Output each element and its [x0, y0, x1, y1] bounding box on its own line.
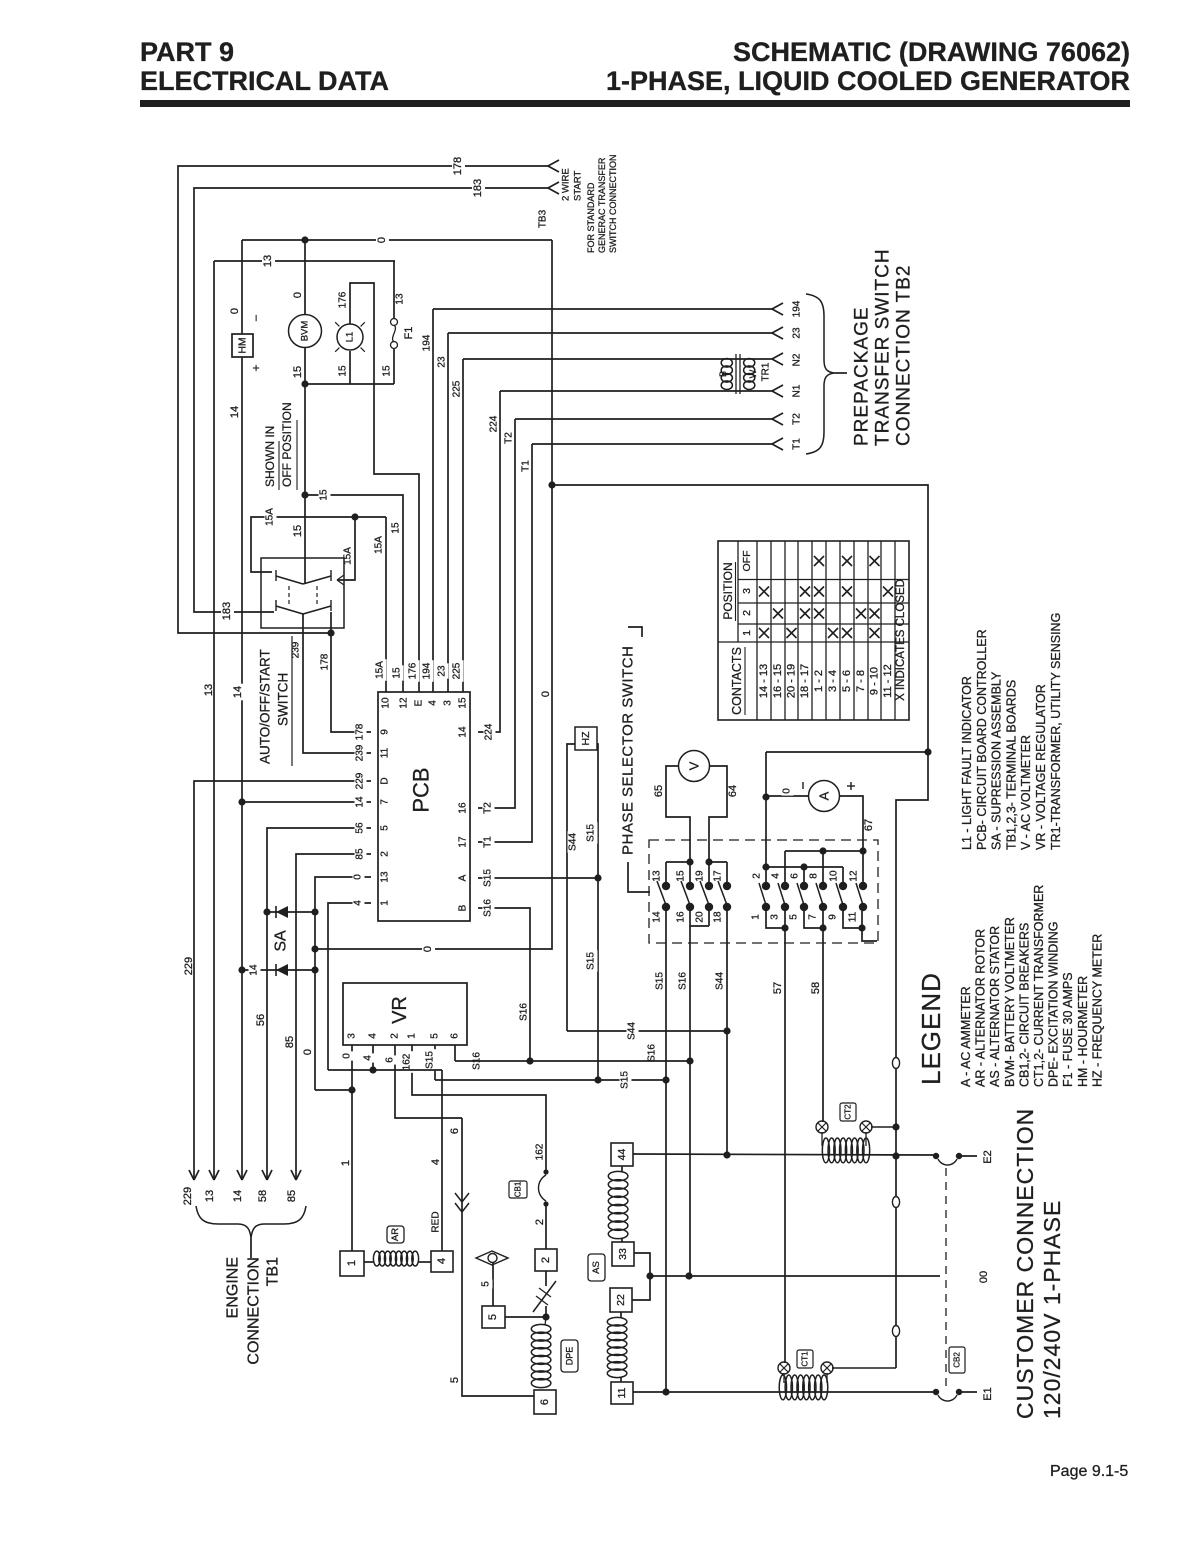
- svg-text:T2: T2: [483, 802, 494, 814]
- wire S44 horizontal: [567, 1020, 727, 1042]
- table X marks: [759, 556, 893, 638]
- wire join 33-22: [632, 1253, 654, 1300]
- svg-text:PCB- CIRCUIT BOARD CONTROLLER: PCB- CIRCUIT BOARD CONTROLLER: [975, 629, 989, 850]
- svg-text:S15: S15: [425, 1051, 436, 1069]
- svg-text:7: 7: [808, 914, 819, 920]
- svg-text:T1: T1: [483, 836, 494, 848]
- svg-text:0: 0: [353, 874, 364, 880]
- svg-text:85: 85: [284, 1036, 296, 1048]
- svg-text:15: 15: [391, 522, 402, 534]
- wire 15 BVM to switch pole: [292, 347, 309, 584]
- wire 162 VR pin 1 to CB1: [402, 1045, 547, 1172]
- spark gap symbol: [476, 1251, 508, 1265]
- label AUTO/OFF/START SWITCH: [258, 636, 293, 766]
- svg-text:7: 7: [380, 799, 391, 805]
- svg-text:225: 225: [452, 662, 463, 679]
- wire 0 selector top: [766, 751, 928, 753]
- svg-text:T2: T2: [792, 413, 803, 425]
- label 2 WIRE START: [561, 168, 584, 201]
- wire T1 to PCB pin 17: [478, 438, 803, 850]
- circuit breaker CB2 dashed link: [945, 1168, 947, 1388]
- svg-text:239: 239: [291, 641, 302, 658]
- svg-text:15: 15: [292, 525, 304, 537]
- svg-text:V - AC VOLTMETER: V - AC VOLTMETER: [1019, 735, 1033, 850]
- switch upper arm: [276, 570, 331, 584]
- wire 5 to box 5: [481, 1262, 494, 1306]
- svg-text:5: 5: [487, 1314, 499, 1320]
- svg-text:13: 13: [204, 1190, 216, 1202]
- svg-text:T1: T1: [521, 460, 532, 472]
- svg-text:19: 19: [695, 870, 706, 882]
- label SA: [273, 930, 290, 952]
- CT1 polarity terminals: [778, 1362, 896, 1383]
- svg-text:PCB: PCB: [409, 767, 434, 812]
- svg-text:POSITION: POSITION: [721, 562, 735, 619]
- label AR alternator rotor: [387, 1226, 404, 1243]
- svg-text:VR: VR: [389, 996, 411, 1024]
- diode SA upper: [267, 906, 315, 918]
- svg-text:2: 2: [741, 610, 753, 616]
- svg-text:4: 4: [363, 1055, 374, 1061]
- svg-text:ELECTRICAL DATA: ELECTRICAL DATA: [140, 66, 389, 96]
- svg-text:Page 9.1-5: Page 9.1-5: [1050, 1463, 1128, 1480]
- svg-text:PHASE SELECTOR SWITCH: PHASE SELECTOR SWITCH: [620, 646, 637, 855]
- coil stator winding 44-33: [608, 1166, 628, 1242]
- svg-text:57: 57: [772, 982, 784, 994]
- svg-text:16: 16: [676, 911, 687, 923]
- svg-text:178: 178: [320, 653, 331, 670]
- PCB pin labels left: [380, 729, 391, 906]
- wire 178 rail (top) with arrow to TB3: [178, 154, 559, 633]
- svg-text:1: 1: [340, 1160, 352, 1166]
- svg-text:6: 6: [449, 1128, 461, 1134]
- svg-text:1: 1: [741, 630, 753, 636]
- phase selector dashed box: [649, 840, 878, 943]
- wire 14 to PCB pin 7: [242, 794, 371, 809]
- svg-text:3: 3: [443, 700, 454, 706]
- svg-text:15A: 15A: [374, 536, 385, 554]
- svg-text:4: 4: [771, 873, 782, 879]
- svg-text:13: 13: [652, 870, 663, 882]
- svg-text:ENGINE: ENGINE: [225, 1257, 242, 1318]
- wire S16 down to 00: [689, 1061, 691, 1276]
- svg-text:BVM: BVM: [300, 321, 311, 342]
- wire box 5 junction: [505, 1313, 550, 1320]
- wire 0 PCB pin 13 to SA: [311, 872, 371, 970]
- svg-text:176: 176: [338, 291, 349, 308]
- svg-text:SA: SA: [273, 930, 290, 952]
- svg-text:162: 162: [402, 1053, 413, 1070]
- coil DPE excitation winding: [531, 1306, 551, 1388]
- svg-text:E2: E2: [982, 1150, 994, 1163]
- selector contacts 19-20: [695, 862, 714, 923]
- svg-text:START: START: [573, 171, 584, 201]
- wire E1 line from 11: [633, 1391, 936, 1393]
- terminal box 4: [431, 1251, 453, 1272]
- svg-text:56: 56: [355, 822, 366, 834]
- wire E2 line from 44: [633, 1154, 936, 1155]
- wire S16 PCB pin B: [478, 897, 530, 1061]
- svg-text:178: 178: [355, 723, 366, 740]
- selector contacts 2-1: [751, 752, 771, 920]
- svg-text:22: 22: [615, 1294, 627, 1306]
- battery voltmeter BVM: [289, 315, 322, 348]
- svg-text:HM - HOURMETER: HM - HOURMETER: [1076, 976, 1090, 1087]
- svg-text:N2: N2: [792, 353, 803, 366]
- header rule: [140, 100, 1130, 107]
- svg-text:SHOWN IN: SHOWN IN: [263, 426, 277, 487]
- wire 57 to CT1: [772, 928, 785, 1363]
- wire 0/1 VR pin 3 to AR terminal 1: [340, 1045, 354, 1251]
- circuit breaker CB1: [538, 1169, 548, 1206]
- svg-text:4: 4: [430, 1159, 442, 1165]
- svg-text:16 - 15: 16 - 15: [772, 664, 784, 698]
- svg-text:229: 229: [183, 957, 195, 975]
- svg-text:120/240V 1-PHASE: 120/240V 1-PHASE: [1039, 1200, 1065, 1419]
- svg-text:6: 6: [790, 873, 801, 879]
- svg-text:LEGEND: LEGEND: [916, 972, 946, 1085]
- svg-text:TB1,2,3- TERMINAL BOARDS: TB1,2,3- TERMINAL BOARDS: [1004, 680, 1018, 850]
- wire 0 branch right: [552, 485, 932, 756]
- svg-text:FOR STANDARD: FOR STANDARD: [586, 182, 596, 253]
- svg-text:CT1: CT1: [801, 1351, 810, 1367]
- svg-text:20 - 19: 20 - 19: [786, 664, 798, 698]
- page number: [1050, 1463, 1128, 1480]
- svg-text:SWITCH CONNECTION: SWITCH CONNECTION: [608, 155, 618, 254]
- stator terminal box 33: [612, 1242, 634, 1266]
- svg-text:3 - 4: 3 - 4: [827, 670, 839, 692]
- svg-text:PREPACKAGE: PREPACKAGE: [852, 306, 873, 446]
- fuse F1: [391, 319, 416, 349]
- CT2 polarity terminals: [816, 1121, 896, 1146]
- node TB3 label: [538, 209, 549, 228]
- svg-text:18: 18: [713, 911, 724, 923]
- label CUSTOMER CONNECTION 120/240V 1-PHASE: [1012, 1108, 1065, 1419]
- svg-text:S16: S16: [519, 1003, 530, 1021]
- svg-text:+: +: [249, 364, 263, 371]
- auto/off/start switch body: [261, 558, 344, 628]
- svg-text:14: 14: [229, 406, 241, 418]
- svg-text:A: A: [817, 791, 832, 800]
- wire 23 to PCB pin 3: [437, 327, 803, 692]
- wire 194 to PCB pin 4: [422, 300, 803, 692]
- svg-text:8: 8: [809, 873, 820, 879]
- svg-text:A: A: [458, 874, 469, 881]
- wire 178 switch to PCB pin 9: [320, 612, 372, 743]
- svg-text:RED: RED: [431, 1211, 442, 1232]
- wire 14 rail (HM to TB1): [229, 357, 247, 1202]
- coil stator winding 22-11: [607, 1312, 627, 1382]
- wire 229 PCB pin D to TB1: [182, 770, 371, 1205]
- svg-text:0: 0: [302, 1049, 314, 1055]
- wire 4 PCB pin 1: [328, 898, 371, 1070]
- svg-text:11: 11: [616, 1387, 628, 1398]
- svg-text:15A: 15A: [375, 661, 386, 679]
- selector contacts 15-16: [666, 862, 694, 923]
- svg-text:239: 239: [355, 744, 366, 761]
- wire S15 HZ right lead: [586, 744, 602, 1080]
- svg-text:14: 14: [458, 726, 469, 738]
- svg-text:TR1-TRANSFORMER, UTILITY SENSI: TR1-TRANSFORMER, UTILITY SENSING: [1049, 613, 1063, 850]
- wire 0 bus top: [242, 235, 552, 245]
- wire 176 L1 to PCB pin E: [338, 283, 420, 692]
- svg-text:HZ - FREQUENCY METER: HZ - FREQUENCY METER: [1090, 934, 1104, 1087]
- label AS alternator stator: [588, 1254, 605, 1281]
- svg-text:15A: 15A: [343, 547, 354, 565]
- op PCB circuit board controller: [378, 692, 470, 921]
- wire 64 V right lead: [705, 766, 739, 866]
- svg-text:AS - ALTERNATOR STATOR: AS - ALTERNATOR STATOR: [988, 926, 1002, 1087]
- svg-text:4: 4: [428, 700, 439, 706]
- selector contacts 17-18: [709, 862, 731, 923]
- PCB pin labels right: [458, 726, 469, 911]
- svg-text:14: 14: [652, 911, 663, 923]
- brace ENGINE CONNECTION TB1: [196, 1206, 306, 1258]
- svg-text:15: 15: [319, 489, 330, 501]
- label PHASE SELECTOR SWITCH: [620, 627, 651, 892]
- svg-text:194: 194: [422, 334, 433, 351]
- svg-text:GENERAC TRANSFER: GENERAC TRANSFER: [597, 157, 607, 253]
- label PREPACKAGE TRANSFER SWITCH CONNECTION TB2: [852, 248, 915, 446]
- svg-text:X INDICATES CLOSED: X INDICATES CLOSED: [895, 579, 907, 701]
- wire join contacts 1/3: [766, 911, 789, 932]
- svg-text:TB1: TB1: [265, 1257, 282, 1286]
- svg-text:5: 5: [430, 1033, 441, 1039]
- svg-text:AS: AS: [591, 1261, 602, 1274]
- svg-text:15: 15: [292, 366, 304, 378]
- svg-text:2: 2: [540, 1257, 552, 1263]
- svg-text:12: 12: [399, 697, 410, 709]
- wire 0 A minus lead: [762, 782, 808, 801]
- terminal box 2: [535, 1249, 557, 1271]
- svg-text:DPE: DPE: [565, 1347, 575, 1366]
- svg-text:4: 4: [436, 1258, 448, 1264]
- svg-text:0: 0: [292, 292, 304, 298]
- label ENGINE CONNECTION TB1: [225, 1257, 282, 1365]
- svg-text:B: B: [718, 371, 728, 377]
- svg-text:DPE- EXCITATION WINDING: DPE- EXCITATION WINDING: [1047, 921, 1061, 1087]
- svg-text:0: 0: [422, 946, 434, 952]
- svg-text:10: 10: [829, 870, 840, 882]
- svg-text:6: 6: [539, 1399, 551, 1405]
- svg-text:225: 225: [452, 380, 463, 397]
- svg-text:9: 9: [828, 914, 839, 920]
- svg-text:5: 5: [380, 825, 391, 831]
- svg-text:18 - 17: 18 - 17: [799, 664, 811, 698]
- legend right column: [960, 613, 1063, 850]
- stator terminal box 11: [611, 1382, 633, 1404]
- op VR voltage regulator: [343, 983, 467, 1045]
- svg-text:1: 1: [407, 1033, 418, 1039]
- wire S44 HZ left lead: [567, 744, 580, 1031]
- wire 0 bus to contacts 2/6/10: [766, 866, 843, 868]
- svg-text:13: 13: [203, 684, 215, 696]
- svg-text:TR1: TR1: [761, 362, 772, 381]
- svg-text:S15: S15: [586, 824, 597, 842]
- svg-text:3: 3: [347, 1033, 358, 1039]
- svg-text:20: 20: [695, 911, 706, 923]
- frequency meter HZ: [575, 727, 597, 750]
- voltmeter V: [679, 751, 710, 782]
- svg-text:V: V: [687, 761, 702, 770]
- svg-text:AUTO/OFF/START: AUTO/OFF/START: [258, 649, 273, 764]
- svg-text:17: 17: [713, 870, 724, 882]
- svg-text:OFF POSITION: OFF POSITION: [280, 402, 294, 487]
- svg-text:33: 33: [617, 1248, 629, 1260]
- svg-text:PART 9: PART 9: [140, 37, 234, 67]
- terminal box 5: [482, 1306, 505, 1328]
- svg-text:T1: T1: [792, 438, 803, 450]
- wire 6 VR pin 2: [385, 1045, 463, 1118]
- VR pin labels: [347, 1033, 461, 1039]
- svg-text:178: 178: [452, 157, 464, 175]
- page header: SCHEMATIC (DRAWING 76062) / 1-PHASE, LIQUID COOLED GENERATOR: [606, 37, 1130, 96]
- svg-text:1: 1: [751, 914, 762, 920]
- svg-text:162: 162: [535, 1143, 546, 1160]
- wire S15 PCB pin A: [478, 867, 598, 889]
- svg-text:2: 2: [534, 1219, 546, 1225]
- svg-text:00: 00: [978, 1271, 990, 1283]
- svg-text:CB2: CB2: [953, 1352, 962, 1368]
- wire S15 VR pin 5: [425, 1045, 437, 1080]
- svg-text:0: 0: [229, 308, 241, 314]
- wire 15A upper bracket: [251, 506, 386, 572]
- svg-text:BVM- BATTERY VOLTMETER: BVM- BATTERY VOLTMETER: [1003, 917, 1017, 1087]
- svg-text:14: 14: [249, 964, 260, 976]
- svg-text:224: 224: [484, 723, 495, 740]
- wire join contacts 5/7: [804, 911, 827, 932]
- svg-text:23: 23: [437, 356, 448, 368]
- diode SA lower: [242, 962, 319, 977]
- wire 15 below F1: [382, 349, 395, 384]
- svg-text:183: 183: [221, 602, 233, 620]
- svg-text:4: 4: [368, 1033, 379, 1039]
- label LEGEND: [916, 972, 946, 1085]
- svg-text:17: 17: [458, 836, 469, 848]
- svg-text:224: 224: [489, 415, 500, 432]
- svg-text:1: 1: [380, 900, 391, 906]
- svg-text:CT1,2- CURRENT TRANSFORMER: CT1,2- CURRENT TRANSFORMER: [1032, 885, 1046, 1087]
- svg-text:5 - 6: 5 - 6: [841, 670, 853, 692]
- wire box 2 down: [545, 1271, 547, 1286]
- svg-text:CONNECTION TB2: CONNECTION TB2: [894, 264, 915, 446]
- svg-text:CUSTOMER CONNECTION: CUSTOMER CONNECTION: [1012, 1108, 1038, 1419]
- svg-text:–: –: [250, 314, 262, 321]
- wire 67 A plus lead: [840, 782, 875, 851]
- wire 65 V left lead: [653, 766, 694, 866]
- svg-text:S16: S16: [483, 899, 494, 917]
- svg-text:CONNECTION: CONNECTION: [246, 1257, 263, 1365]
- stator terminal box 44: [611, 1143, 633, 1166]
- svg-text:S44: S44: [715, 972, 726, 990]
- svg-text:5: 5: [449, 1377, 461, 1383]
- svg-text:CT2: CT2: [844, 1104, 853, 1120]
- svg-text:229: 229: [182, 1187, 194, 1205]
- svg-text:11: 11: [380, 747, 391, 758]
- label CB2: [949, 1347, 965, 1373]
- svg-text:5: 5: [789, 914, 800, 920]
- wire 0 long rail: [311, 240, 555, 954]
- switch lower arm: [276, 600, 331, 614]
- svg-text:44: 44: [616, 1149, 628, 1161]
- wire 2 CB1 to box 2: [534, 1204, 546, 1249]
- svg-text:S44: S44: [568, 833, 579, 851]
- wire 00 neutral to customer: [650, 1271, 990, 1283]
- terminal E2: [933, 1150, 994, 1165]
- svg-text:L1 - LIGHT FAULT INDICATOR: L1 - LIGHT FAULT INDICATOR: [960, 676, 974, 850]
- svg-text:56: 56: [255, 1014, 267, 1026]
- svg-text:183: 183: [472, 179, 484, 197]
- svg-text:13: 13: [262, 255, 274, 267]
- svg-text:AR - ALTERNATOR ROTOR: AR - ALTERNATOR ROTOR: [974, 929, 988, 1087]
- svg-text:15: 15: [338, 365, 349, 377]
- svg-text:SA - SUPRESSION ASSEMBLY: SA - SUPRESSION ASSEMBLY: [990, 671, 1004, 850]
- wire S16 VR pin 6: [455, 1045, 484, 1072]
- svg-text:OFF: OFF: [741, 551, 753, 572]
- wire 15 to PCB pin 12: [305, 487, 404, 692]
- svg-text:HZ: HZ: [580, 731, 592, 746]
- svg-text:13: 13: [380, 871, 391, 883]
- wire T2 to PCB pin 16: [478, 413, 803, 816]
- legend left column: [959, 885, 1104, 1087]
- wire 15A branch to switch: [337, 517, 355, 585]
- svg-text:0: 0: [342, 1053, 353, 1059]
- wire 4 RED to box 4: [328, 1070, 442, 1251]
- svg-text:S15: S15: [655, 972, 666, 990]
- selector contacts 4-3: [770, 851, 790, 920]
- wire 15 junction bar: [305, 383, 394, 385]
- wire S16 horizontal: [455, 1044, 694, 1065]
- svg-text:194: 194: [422, 662, 433, 679]
- svg-text:B: B: [458, 904, 469, 911]
- wire S44 down to 44: [723, 1031, 730, 1159]
- switch link (dashed): [289, 586, 317, 604]
- svg-text:CB1,2- CIRCUIT BREAKERS: CB1,2- CIRCUIT BREAKERS: [1017, 923, 1031, 1087]
- selector contacts 13-14: [652, 862, 671, 923]
- svg-text:E1: E1: [982, 1387, 994, 1400]
- svg-text:4: 4: [353, 900, 364, 906]
- svg-text:3: 3: [770, 914, 781, 920]
- svg-text:58: 58: [257, 1190, 269, 1202]
- HM plus label: [249, 364, 263, 371]
- wire 4 VR pin 4: [363, 1045, 377, 1074]
- wire 183 rail with arrow to TB3: [194, 176, 559, 622]
- transformer TR1 (utility sensing): [718, 354, 772, 394]
- svg-text:6: 6: [385, 1057, 396, 1063]
- svg-text:85: 85: [355, 848, 366, 860]
- svg-text:14: 14: [232, 1190, 244, 1202]
- label CB1: [509, 1181, 527, 1198]
- svg-text:W: W: [748, 369, 758, 378]
- svg-text:67: 67: [863, 819, 875, 831]
- current transformer CT2 coil: [822, 1138, 869, 1163]
- svg-text:CONTACTS: CONTACTS: [730, 647, 744, 715]
- svg-text:64: 64: [727, 785, 739, 797]
- svg-text:13: 13: [395, 293, 406, 305]
- svg-text:14: 14: [355, 796, 366, 808]
- svg-text:2: 2: [380, 851, 391, 857]
- svg-text:15: 15: [382, 365, 393, 377]
- selector contacts 12-11: [848, 847, 868, 922]
- svg-text:N1: N1: [792, 384, 803, 397]
- svg-text:E: E: [414, 699, 425, 706]
- svg-text:D: D: [380, 777, 391, 784]
- svg-text:TRANSFER SWITCH: TRANSFER SWITCH: [873, 248, 894, 446]
- ammeter A: [809, 781, 840, 812]
- coil AR rotor winding: [364, 1251, 431, 1266]
- selector contacts 6-5: [789, 863, 809, 919]
- wire 85 PCB pin 2 to TB1: [284, 846, 371, 1202]
